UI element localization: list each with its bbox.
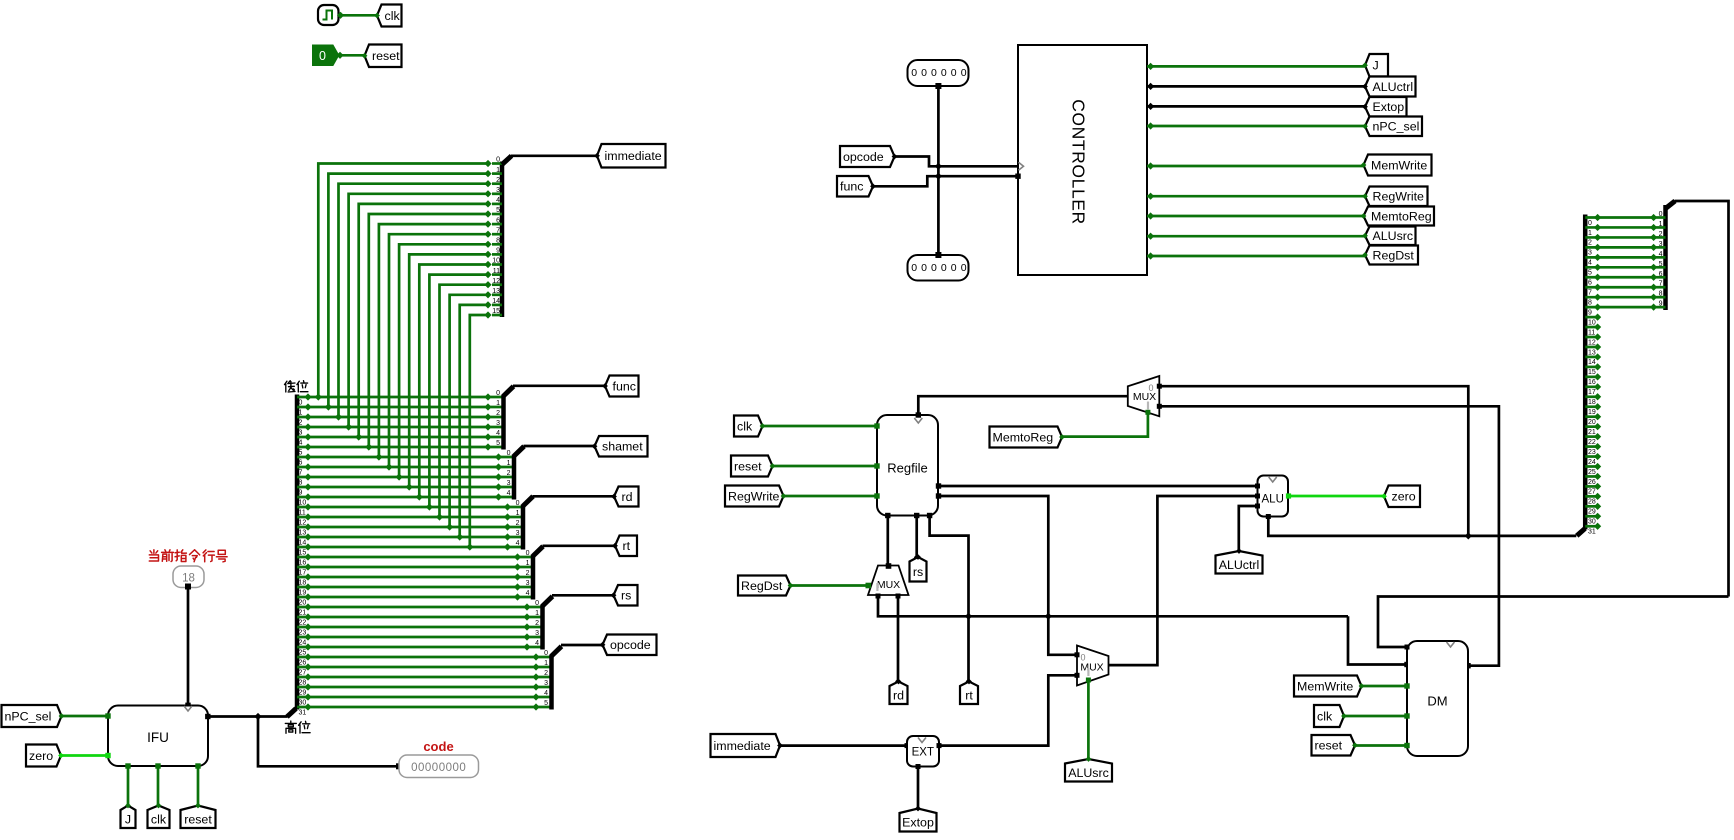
- svg-text:1: 1: [516, 510, 520, 517]
- splitter SP_res leg 15: [1585, 366, 1597, 369]
- wire IFU clk pin down: [157, 766, 160, 805]
- wire instruction bit 4 (to func bit 4): [297, 436, 504, 439]
- svg-text:16: 16: [299, 559, 307, 566]
- wire constant to reset tunnel: [339, 54, 365, 57]
- svg-text:19: 19: [1588, 409, 1596, 416]
- svg-text:28: 28: [1588, 499, 1596, 506]
- probe opcode value 000000 (top): [908, 60, 969, 86]
- svg-text:0: 0: [931, 67, 937, 79]
- probe func value 000000 (bottom): [908, 255, 969, 281]
- svg-text:reset: reset: [184, 812, 212, 826]
- splitter SP_res leg 1: [1585, 226, 1653, 229]
- splitter SP_imm leg 1: [492, 172, 502, 175]
- splitter SP_res leg 20: [1585, 415, 1597, 418]
- wire IFU J pin down: [127, 766, 130, 805]
- svg-text:17: 17: [299, 569, 307, 576]
- splitter SP_res leg 13: [1585, 346, 1597, 349]
- tunnel RegWrite (Regfile input): [725, 486, 784, 507]
- splitter SP_res leg 8: [1585, 296, 1653, 299]
- svg-text:clk: clk: [385, 9, 401, 23]
- wire busA Regfile to ALU input A: [938, 485, 1258, 488]
- tunnel Extop (controller output): [1365, 97, 1407, 117]
- svg-text:J: J: [125, 812, 131, 826]
- splitter SP_res legs: [1585, 214, 1657, 536]
- wire instruction bit 26 (to opcode bit 0): [297, 656, 552, 659]
- wire ALUctrl to ALU: [1239, 506, 1258, 551]
- wire MemtoReg select: [1062, 413, 1148, 437]
- wire rt net down to DM: [1348, 616, 1407, 664]
- svg-text:Extop: Extop: [1373, 100, 1405, 114]
- wire branch down to code probe: [258, 717, 397, 767]
- component Regfile: [877, 415, 938, 516]
- tunnel clk (IFU bottom): [148, 806, 170, 829]
- svg-text:0: 0: [911, 262, 917, 274]
- splitter SP_res leg 16: [1585, 376, 1597, 379]
- tunnel Extop (below EXT): [900, 809, 937, 832]
- splitter SP_imm leg 13: [492, 293, 502, 296]
- label gao-wei (high bits): [285, 721, 296, 733]
- splitter SP_res leg 31: [1585, 525, 1597, 528]
- svg-text:26: 26: [1588, 479, 1596, 486]
- splitter SP_addr leg 5: [1654, 266, 1666, 269]
- svg-text:func: func: [613, 379, 636, 393]
- wire immediate to EXT: [780, 744, 908, 747]
- svg-text:Regfile: Regfile: [887, 461, 927, 476]
- wire instruction bit 12 (to rd bit 1): [297, 516, 523, 519]
- wire immediate bit 5 (L-shaped, junction at bit row 5): [369, 214, 488, 447]
- wire instruction bit 15 (to rd bit 4): [297, 546, 523, 549]
- svg-text:rt: rt: [623, 539, 631, 553]
- svg-text:rd: rd: [893, 688, 904, 702]
- tunnel func: [605, 376, 639, 397]
- wire instruction bit 16 (to rt bit 0): [297, 556, 533, 559]
- svg-text:code: code: [423, 739, 453, 754]
- svg-text:ALU: ALU: [1262, 494, 1284, 506]
- splitter SP_res leg 9: [1585, 306, 1653, 309]
- wire opcode to controller: [894, 157, 1018, 167]
- wire instruction bit 0 (to func bit 0): [297, 396, 504, 399]
- wire instruction bit 25 (to rs bit 4): [297, 646, 543, 649]
- svg-text:8: 8: [1588, 299, 1592, 306]
- tunnel ALUctrl (below ALU): [1216, 551, 1263, 574]
- wire immediate bit 6 (L-shaped, junction at bit row 6): [379, 224, 488, 457]
- splitter SP_res leg 19: [1585, 405, 1597, 408]
- splitter SP_res leg 0: [1585, 216, 1653, 219]
- svg-text:reset: reset: [1315, 739, 1343, 753]
- svg-text:2: 2: [526, 570, 530, 577]
- splitter SP_addr legs: [1654, 211, 1666, 308]
- svg-text:2: 2: [1659, 231, 1663, 238]
- svg-text:7: 7: [1588, 290, 1592, 297]
- svg-text:20: 20: [299, 599, 307, 606]
- svg-text:18: 18: [299, 579, 307, 586]
- svg-text:0: 0: [535, 600, 539, 607]
- tunnel reset (DM input): [1312, 735, 1356, 756]
- svg-text:8: 8: [1659, 291, 1663, 298]
- svg-text:0: 0: [1588, 220, 1592, 227]
- splitter SP_res leg 2: [1585, 236, 1653, 239]
- svg-text:27: 27: [1588, 489, 1596, 496]
- svg-text:MemWrite: MemWrite: [1371, 158, 1427, 172]
- svg-text:14: 14: [1588, 359, 1596, 366]
- svg-text:0: 0: [526, 550, 530, 557]
- svg-text:1: 1: [544, 660, 548, 667]
- wire controller output J: [1147, 65, 1365, 68]
- wire RegWrite to Regfile: [783, 495, 877, 498]
- svg-text:11: 11: [1588, 329, 1595, 336]
- wire instruction bit 7 (to shamet bit 1): [297, 466, 514, 469]
- svg-text:RegWrite: RegWrite: [1373, 190, 1425, 204]
- svg-text:MemWrite: MemWrite: [1297, 679, 1353, 693]
- wire RegDst MUX in1 to rd tunnel: [897, 596, 900, 681]
- svg-text:15: 15: [1588, 369, 1596, 376]
- svg-text:0: 0: [941, 67, 947, 79]
- svg-text:2: 2: [496, 410, 500, 417]
- svg-text:10: 10: [1588, 319, 1596, 326]
- splitter SP_addr leg 8: [1654, 296, 1666, 299]
- tunnel clk (Regfile input): [734, 416, 763, 437]
- svg-text:13: 13: [1588, 349, 1596, 356]
- wire instruction bit 17 (to rt bit 1): [297, 566, 533, 569]
- splitter SP_addr origin stub: [1666, 201, 1676, 209]
- wire ALUsrc select: [1087, 679, 1090, 759]
- svg-text:CONTROLLER: CONTROLLER: [1069, 99, 1089, 225]
- svg-text:2: 2: [1588, 240, 1592, 247]
- svg-text:reset: reset: [372, 49, 400, 63]
- wire immediate bit 0 (L-shaped, junction at bit row 0): [318, 164, 488, 398]
- wire clk to DM: [1344, 715, 1408, 718]
- tunnel reset (top left): [365, 45, 402, 68]
- splitter SP_instr origin stub: [287, 709, 296, 717]
- splitter SP_res leg 30: [1585, 515, 1597, 518]
- splitter SP_res leg 21: [1585, 425, 1597, 428]
- svg-text:20: 20: [1588, 419, 1596, 426]
- wire EXT output to ALUsrc MUX in1: [939, 675, 1077, 745]
- wire nPC_sel to IFU: [63, 715, 108, 718]
- splitter SP_res leg 25: [1585, 465, 1597, 468]
- wire immediate bit 4 (L-shaped, junction at bit row 4): [359, 204, 488, 437]
- tunnel func (controller input): [837, 176, 873, 197]
- tunnel reset (Regfile input): [731, 456, 773, 477]
- svg-text:9: 9: [1588, 309, 1592, 316]
- splitter SP_imm leg 8: [492, 243, 502, 246]
- wire instruction bit 5 (to func bit 5): [297, 446, 504, 449]
- svg-text:25: 25: [299, 649, 307, 656]
- svg-text:4: 4: [526, 590, 530, 597]
- splitter SP_imm leg 6: [492, 223, 502, 226]
- svg-text:MemtoReg: MemtoReg: [1371, 209, 1432, 223]
- svg-text:11: 11: [299, 509, 306, 516]
- wire instruction bit 20 (to rt bit 4): [297, 596, 533, 599]
- wire RegDst select: [790, 584, 868, 587]
- svg-text:IFU: IFU: [147, 730, 169, 745]
- svg-text:4: 4: [1588, 260, 1592, 267]
- svg-text:9: 9: [299, 489, 303, 496]
- svg-text:shamet: shamet: [602, 440, 643, 454]
- svg-text:31: 31: [1588, 529, 1596, 536]
- svg-text:4: 4: [516, 540, 520, 547]
- svg-text:3: 3: [1659, 241, 1663, 248]
- destination splitters func/shamet/rd/rt/rs/opcode: [504, 383, 618, 710]
- splitter SP_res leg 27: [1585, 485, 1597, 488]
- wire zero to IFU: [63, 754, 109, 757]
- svg-text:1: 1: [1659, 221, 1663, 228]
- splitter SP_instr 32-bit bar: [295, 395, 300, 710]
- svg-text:29: 29: [299, 689, 307, 696]
- svg-text:3: 3: [516, 530, 520, 537]
- splitter SP_res leg 28: [1585, 495, 1597, 498]
- wire controller output MemWrite: [1147, 165, 1365, 168]
- wire instruction bit 10 (to shamet bit 4): [297, 496, 514, 499]
- mux ALUsrc MUX (facing east): [1077, 646, 1109, 686]
- svg-text:1: 1: [507, 460, 511, 467]
- splitter SP_res leg 17: [1585, 385, 1597, 388]
- tunnel RegDst (select input): [738, 576, 791, 596]
- svg-text:4: 4: [544, 690, 548, 697]
- wire immediate bit 2 (L-shaped, junction at bit row 2): [339, 184, 489, 417]
- tunnel shamet: [595, 436, 648, 457]
- constant 0 (reset source): [313, 45, 339, 66]
- splitter SP_res leg 23: [1585, 445, 1597, 448]
- wire instruction bit 9 (to shamet bit 3): [297, 486, 514, 489]
- wire instruction bit 22 (to rs bit 1): [297, 616, 543, 619]
- probe code value 00000000: [399, 755, 479, 778]
- tunnel MemWrite (controller output): [1364, 155, 1432, 176]
- label di-wei (low bits): [285, 381, 296, 392]
- wire instruction bit 23 (to rs bit 2): [297, 626, 543, 629]
- svg-text:0: 0: [516, 500, 520, 507]
- splitter SP_res origin stub: [1577, 529, 1585, 536]
- svg-text:zero: zero: [1392, 490, 1416, 504]
- svg-text:22: 22: [299, 619, 307, 626]
- splitter SP_res leg 5: [1585, 266, 1653, 269]
- tunnel rt (left column): [615, 536, 637, 557]
- svg-text:31: 31: [299, 709, 307, 716]
- tunnel rs (left column): [614, 585, 638, 606]
- splitter SP_imm 16-bit (immediate) bar: [500, 162, 505, 318]
- component CONTROLLER: [1018, 45, 1147, 275]
- wire probe18 to IFU top pin: [187, 588, 190, 706]
- splitter SP_res leg 12: [1585, 336, 1597, 339]
- svg-text:1: 1: [535, 610, 539, 617]
- splitter SP_imm leg 0: [492, 162, 502, 165]
- svg-text:1: 1: [496, 167, 500, 174]
- svg-text:clk: clk: [1317, 709, 1333, 723]
- wire probe column vertical: [937, 86, 940, 255]
- svg-text:0: 0: [496, 390, 500, 397]
- svg-text:5: 5: [299, 449, 303, 456]
- svg-text:4: 4: [496, 197, 500, 204]
- svg-text:16: 16: [1588, 379, 1596, 386]
- wire IFU instruction output to splitter origin: [208, 715, 288, 718]
- wire immediate splitter to tunnel: [511, 154, 597, 157]
- wire controller output RegWrite: [1147, 195, 1365, 198]
- component DM: [1407, 641, 1468, 756]
- splitter SP_addr leg 7: [1654, 286, 1666, 289]
- wire instruction bit 1 (to func bit 1): [297, 406, 504, 409]
- svg-text:RegDst: RegDst: [1373, 248, 1415, 262]
- splitter SP_imm leg 4: [492, 203, 502, 206]
- svg-text:EXT: EXT: [912, 747, 934, 759]
- svg-text:rt: rt: [965, 688, 973, 702]
- svg-text:nPC_sel: nPC_sel: [5, 709, 52, 723]
- tunnel rd (below MUX): [890, 682, 908, 705]
- svg-text:7: 7: [496, 227, 500, 234]
- wire func to controller: [873, 176, 1019, 186]
- svg-text:5: 5: [544, 700, 548, 707]
- svg-text:DM: DM: [1427, 694, 1447, 709]
- svg-text:immediate: immediate: [714, 739, 771, 753]
- tunnel clk (DM input): [1314, 705, 1344, 727]
- wire immediate bit 3 (L-shaped, junction at bit row 3): [349, 194, 488, 427]
- wire MemtoReg MUX in0 (ALU bypass): [1159, 386, 1468, 536]
- svg-text:0: 0: [507, 450, 511, 457]
- tunnel ALUsrc (controller output): [1365, 227, 1416, 246]
- svg-text:2: 2: [544, 670, 548, 677]
- splitter SP_res leg 18: [1585, 395, 1597, 398]
- svg-text:ALUsrc: ALUsrc: [1373, 229, 1414, 243]
- wire controller output ALUctrl: [1147, 85, 1365, 88]
- splitter SP_res leg 6: [1585, 276, 1653, 279]
- splitter SP_res leg 22: [1585, 435, 1597, 438]
- wire instruction bit 13 (to rd bit 2): [297, 526, 523, 529]
- svg-text:ALUctrl: ALUctrl: [1373, 80, 1414, 94]
- wire instruction bit 24 (to rs bit 3): [297, 636, 543, 639]
- wire immediate bit 1 (L-shaped, junction at bit row 1): [328, 174, 488, 407]
- wire immediate bit 13 (L-shaped, junction at bit row 13): [450, 295, 488, 527]
- svg-text:5: 5: [1659, 261, 1663, 268]
- splitter SP_imm leg 3: [492, 192, 502, 195]
- svg-text:clk: clk: [737, 419, 753, 433]
- tunnel opcode (controller input): [840, 146, 895, 167]
- wire reset to Regfile: [772, 465, 877, 468]
- tunnel J (controller output): [1365, 54, 1388, 77]
- splitter SP_res leg 3: [1585, 246, 1653, 249]
- svg-text:6: 6: [496, 217, 500, 224]
- svg-text:opcode: opcode: [843, 150, 884, 164]
- tunnel immediate (EXT input): [711, 734, 781, 757]
- wire ALUsrc MUX output to ALU input B: [1109, 496, 1258, 665]
- svg-text:0: 0: [921, 262, 927, 274]
- wire RegDst MUX in0 to rt net: [878, 596, 1348, 616]
- wire instruction bit 30 (to opcode bit 4): [297, 696, 552, 699]
- splitter SP_imm leg 7: [492, 233, 502, 236]
- svg-text:5: 5: [496, 440, 500, 447]
- splitter SP_addr leg 6: [1654, 276, 1666, 279]
- svg-text:0: 0: [1659, 211, 1663, 218]
- splitter SP_addr leg 4: [1654, 256, 1666, 259]
- svg-text:22: 22: [1588, 439, 1596, 446]
- wire MemWrite to DM: [1362, 685, 1408, 688]
- component ALU: [1258, 476, 1289, 517]
- svg-text:reset: reset: [734, 459, 762, 473]
- svg-text:13: 13: [299, 529, 307, 536]
- svg-text:9: 9: [1659, 301, 1663, 308]
- mux MemtoReg MUX (facing west): [1128, 376, 1160, 416]
- svg-text:1: 1: [299, 409, 303, 416]
- svg-text:1: 1: [496, 400, 500, 407]
- svg-text:25: 25: [1588, 469, 1596, 476]
- splitter SP_imm leg 2: [492, 182, 502, 185]
- svg-text:MUX: MUX: [877, 579, 900, 591]
- splitter SP_imm origin stub: [502, 156, 512, 165]
- splitter SP_addr leg 9: [1654, 306, 1666, 309]
- svg-text:RegDst: RegDst: [741, 579, 783, 593]
- wire instruction bit 18 (to rt bit 2): [297, 576, 533, 579]
- tunnel RegWrite (controller output): [1365, 187, 1428, 207]
- splitter SP_imm leg 12: [492, 283, 502, 286]
- svg-text:14: 14: [492, 298, 500, 305]
- svg-text:3: 3: [496, 420, 500, 427]
- wire Regfile RB pin to rt net: [930, 516, 969, 682]
- splitter SP_imm leg 15: [492, 314, 502, 317]
- svg-text:21: 21: [299, 609, 307, 616]
- probe PC value 18: [173, 566, 204, 588]
- svg-text:6: 6: [1588, 280, 1592, 287]
- splitter SP_imm leg 10: [492, 263, 502, 266]
- wire SP_addr to far right down to DM: [1675, 201, 1729, 597]
- wire controller output Extop: [1147, 105, 1365, 108]
- tunnel rd (left column): [614, 487, 639, 507]
- wire immediate bit 8 (L-shaped, junction at bit row 8): [399, 244, 488, 477]
- svg-text:0: 0: [921, 67, 927, 79]
- wire Regfile W# pin to RegDst MUX output: [886, 516, 889, 567]
- wire controller output nPC_sel: [1147, 125, 1365, 128]
- svg-text:rs: rs: [621, 589, 631, 603]
- wire instruction bit 28 (to opcode bit 2): [297, 676, 552, 679]
- tunnel clk (top left): [377, 5, 402, 27]
- svg-text:13: 13: [492, 288, 500, 295]
- svg-text:zero: zero: [29, 749, 53, 763]
- svg-text:23: 23: [1588, 449, 1596, 456]
- splitter SP_imm leg 11: [492, 273, 502, 276]
- svg-text:0: 0: [931, 262, 937, 274]
- svg-text:clk: clk: [151, 812, 167, 826]
- svg-text:J: J: [1373, 59, 1379, 73]
- wire immediate bit 15 (L-shaped, junction at bit row 15): [470, 315, 488, 547]
- svg-text:3: 3: [496, 187, 500, 194]
- tunnel J (IFU input, bottom): [121, 806, 136, 829]
- splitter SP_addr leg 3: [1654, 246, 1666, 249]
- svg-text:func: func: [840, 180, 863, 194]
- svg-text:21: 21: [1588, 429, 1596, 436]
- svg-text:6: 6: [1659, 271, 1663, 278]
- svg-text:1: 1: [526, 560, 530, 567]
- svg-text:3: 3: [1588, 250, 1592, 257]
- splitter SP_res leg 10: [1585, 316, 1597, 319]
- svg-text:0: 0: [961, 67, 967, 79]
- component IFU: [108, 706, 208, 767]
- wire instruction bit 2 (to func bit 2): [297, 416, 504, 419]
- immediate fan-out vertical wires bits 0-15: [315, 160, 492, 551]
- svg-text:2: 2: [535, 620, 539, 627]
- svg-text:0: 0: [496, 157, 500, 164]
- svg-text:28: 28: [299, 679, 307, 686]
- svg-text:8: 8: [496, 238, 500, 245]
- svg-text:ALUctrl: ALUctrl: [1219, 558, 1260, 572]
- svg-text:6: 6: [299, 459, 303, 466]
- wire immediate bit 12 (L-shaped, junction at bit row 12): [440, 285, 489, 517]
- splitter SP_res leg 4: [1585, 256, 1653, 259]
- tunnel ALUsrc (below MUX): [1065, 759, 1112, 782]
- wire zero output (logic 1): [1288, 495, 1384, 498]
- component EXT: [907, 736, 939, 767]
- splitter SP_addr leg 1: [1654, 226, 1666, 229]
- wire instruction bit 3 (to func bit 3): [297, 426, 504, 429]
- svg-text:3: 3: [544, 680, 548, 687]
- tunnel zero (IFU input): [26, 745, 61, 767]
- wire busB Regfile to ALUsrc MUX input 0: [938, 496, 1077, 655]
